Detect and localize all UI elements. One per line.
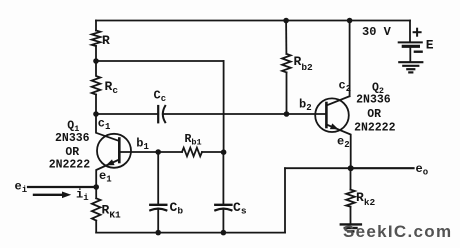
node Rb2 bottom / b2 line [284, 111, 290, 117]
node e1 (emitter / ei input) [93, 184, 99, 190]
battery minus sign [415, 51, 422, 53]
wire left column top (rail to R) [95, 21, 97, 31]
label Rb2 [294, 54, 314, 73]
svg-text:SeekIC.com: SeekIC.com [343, 222, 452, 241]
wire Rb1 to node X [202, 151, 224, 153]
node Cs / bottom rail [221, 230, 227, 236]
resistor Rk2 [346, 190, 355, 207]
capacitor Cs [215, 205, 231, 211]
node c1 [93, 111, 99, 117]
wire R to node A [95, 46, 97, 61]
svg-text:OR: OR [65, 146, 79, 159]
label R [102, 33, 110, 48]
label Rc [105, 79, 119, 96]
label eo [416, 162, 429, 178]
label Cb [170, 200, 184, 217]
node Cb / bottom rail [155, 230, 161, 236]
battery E [399, 42, 422, 61]
node e2 / output [348, 165, 354, 171]
resistor Rb2 [282, 54, 291, 73]
capacitor Cc [158, 106, 165, 122]
label ii [76, 188, 89, 204]
label RK1 [102, 203, 122, 221]
label b2 [299, 98, 312, 114]
wire feedback branch vertical (corner down to node X) [223, 61, 225, 152]
svg-text:2N2222: 2N2222 [49, 159, 91, 172]
wire rail corner to battery [409, 21, 411, 42]
svg-text:2N2222: 2N2222 [354, 121, 396, 134]
wire e1 node to RK1 [95, 187, 97, 198]
label E [426, 38, 434, 53]
label Q1 type [49, 120, 91, 172]
node top rail / Rb2 [283, 18, 289, 24]
label b1 [136, 136, 149, 152]
svg-text:2N336: 2N336 [55, 132, 90, 145]
svg-text:E: E [426, 38, 434, 53]
resistor Rb1 [182, 148, 202, 157]
label Q2 type [354, 82, 396, 135]
label Cc [154, 89, 167, 105]
wire Cb to bottom rail [157, 209, 159, 233]
label Cs [233, 200, 247, 217]
label Rb1 [185, 133, 202, 148]
resistor RK1 [92, 198, 101, 220]
ground (Rk2) [341, 224, 361, 231]
svg-text:OR: OR [367, 108, 381, 121]
wire rail down to Q2 collector [349, 21, 351, 97]
wire output line right (e2 node to eo) [351, 167, 414, 169]
transistor Q2 [315, 96, 351, 168]
capacitor Cb [150, 205, 166, 211]
label ei [15, 180, 28, 196]
wire rail to Rb2 [285, 21, 287, 54]
wire Cs to bottom rail [222, 209, 224, 233]
transistor Q1 [96, 114, 131, 187]
label 30 V [362, 25, 392, 39]
node rail / Q2 collector [347, 18, 353, 24]
wire bottom rail [96, 232, 285, 234]
svg-text:30 V: 30 V [362, 25, 392, 39]
svg-text:2N336: 2N336 [356, 94, 391, 107]
wire riser (bottom rail up to output line) [284, 168, 286, 232]
wire e2 node to Rk2 [350, 168, 352, 189]
wire c1 to Cc left plate [96, 113, 158, 115]
wire Rk2 to ground [350, 207, 352, 224]
node A (R / Rc junction) [93, 58, 99, 64]
label c2 [339, 79, 352, 95]
wire top supply rail [96, 20, 410, 22]
wire Cb branch top [157, 152, 159, 204]
wire ei input [28, 186, 96, 188]
battery plus sign [414, 29, 421, 36]
label e2 [337, 135, 350, 151]
label Rk2 [356, 190, 376, 208]
wire feedback branch top (node A to corner) [96, 60, 224, 62]
wire node X down to Cs [222, 152, 224, 204]
current arrow ii [34, 192, 71, 199]
svg-text:R: R [102, 33, 110, 48]
node b1 / Cb [155, 149, 161, 155]
ground (battery) [399, 62, 422, 72]
node X (Rb1 / Cs / feedback) [221, 149, 227, 155]
wire Rb2 to b2 line [286, 72, 288, 114]
resistor R [92, 31, 101, 47]
wire Q1 base to node X (b1 line) [119, 151, 182, 153]
wire Rc to node c1 [95, 95, 97, 115]
label c1 [98, 117, 111, 133]
wire Cc to b2 (crosses feedback branch, no joint) [163, 113, 327, 115]
resistor Rc [92, 61, 101, 95]
wire RK1 to bottom rail [95, 221, 97, 233]
wire output line left (riser to e2 node) [285, 167, 351, 169]
label e1 [99, 169, 112, 185]
